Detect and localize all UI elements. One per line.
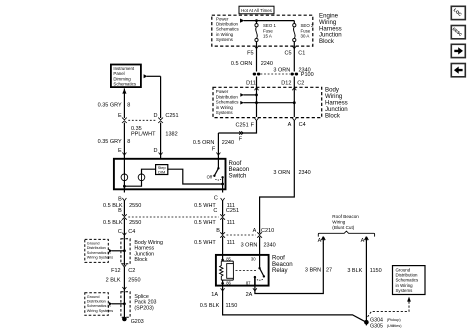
svg-text:DIM: DIM xyxy=(158,169,165,174)
svg-text:F5: F5 xyxy=(247,51,253,57)
svg-text:30: 30 xyxy=(251,257,256,262)
svg-text:3 BRN: 3 BRN xyxy=(305,268,321,274)
relay pin 30 xyxy=(259,255,261,268)
relay contact 87 xyxy=(254,276,256,278)
svg-text:2550: 2550 xyxy=(128,278,140,284)
svg-text:(SP203): (SP203) xyxy=(134,305,154,311)
svg-text:Relay: Relay xyxy=(272,267,289,274)
svg-text:Distribution: Distribution xyxy=(87,246,106,250)
svg-text:C: C xyxy=(214,196,218,202)
svg-text:30 A: 30 A xyxy=(301,34,310,39)
svg-text:E: E xyxy=(118,113,122,119)
svg-text:3 ORN: 3 ORN xyxy=(241,243,258,249)
relay switch arm xyxy=(260,268,264,276)
svg-text:(Pickup): (Pickup) xyxy=(387,318,402,322)
wire hot feed bus with arrow to power distribution xyxy=(244,20,294,22)
terminal A / C4 exit chevron xyxy=(292,118,296,121)
svg-text:2240: 2240 xyxy=(261,61,273,67)
svg-text:C251: C251 xyxy=(226,208,239,214)
svg-text:8: 8 xyxy=(127,103,130,109)
blunt cut brace xyxy=(318,231,374,237)
wire 0.35 GRY 8 (upper segment, node E) xyxy=(123,88,125,118)
wire D to switch xyxy=(160,123,162,159)
svg-text:A: A xyxy=(253,228,257,234)
svg-text:3 BLK: 3 BLK xyxy=(347,268,362,274)
terminal C5 / connector C1 xyxy=(292,46,296,49)
terminal 2A (relay 87) xyxy=(254,286,256,292)
svg-text:Ground: Ground xyxy=(87,295,100,299)
svg-text:8: 8 xyxy=(127,139,130,145)
svg-text:0.5 BLK: 0.5 BLK xyxy=(103,220,123,226)
engine wiring harness junction block (dashed box) xyxy=(212,15,313,46)
svg-text:2240: 2240 xyxy=(222,140,234,146)
svg-text:Schematics: Schematics xyxy=(113,82,136,87)
wire arrow to ground distribution (upper) xyxy=(112,250,124,252)
terminal splice pack entry xyxy=(122,287,126,290)
wire lamp2 top to step/dim module xyxy=(142,169,156,174)
svg-text:Systems: Systems xyxy=(396,288,414,293)
svg-text:Systems: Systems xyxy=(216,110,234,115)
terminal D11 entry chevron xyxy=(255,88,259,91)
svg-text:D12: D12 xyxy=(281,80,291,86)
svg-text:Wiring: Wiring xyxy=(332,220,345,225)
svg-text:C5: C5 xyxy=(284,51,291,57)
relay pin 85 xyxy=(222,255,224,261)
wire arrow into instrument panel box from node D xyxy=(147,75,161,77)
wire fuse SEO2 to C5/C1 exit xyxy=(293,42,295,49)
svg-text:Systems: Systems xyxy=(216,37,234,42)
svg-text:0.35 GRY: 0.35 GRY xyxy=(98,139,122,145)
svg-text:Schematics in: Schematics in xyxy=(87,304,111,308)
junction dot switch common xyxy=(221,183,224,186)
svg-text:1150: 1150 xyxy=(226,303,238,309)
svg-text:Switch: Switch xyxy=(229,173,247,180)
wire through lower body block xyxy=(123,239,125,266)
wire arrow to power distribution (lower) xyxy=(244,102,295,104)
wire 2A to beacon feed run xyxy=(255,243,323,293)
relay coil top bus xyxy=(221,260,233,262)
svg-text:1150: 1150 xyxy=(370,268,382,274)
svg-text:A: A xyxy=(318,238,322,244)
svg-text:87: 87 xyxy=(246,281,251,286)
svg-text:B: B xyxy=(118,196,122,202)
toolbar button back (left arrow) xyxy=(451,64,465,77)
wire 0.5 ORN 2240 (F5 to P100) xyxy=(256,49,258,72)
wire arrow to power distribution (upper) xyxy=(244,94,257,96)
svg-text:2550: 2550 xyxy=(129,220,141,226)
relay actuation dashed link xyxy=(236,270,258,272)
svg-text:B: B xyxy=(118,208,122,214)
wire 3 ORN 2340 (C1 to P100) xyxy=(293,49,295,72)
relay coil bottom bus xyxy=(221,279,233,281)
roof beacon relay box xyxy=(216,255,269,286)
wire through splice pack to G203 xyxy=(123,292,125,319)
body wiring harness junction block upper (dashed box) xyxy=(213,87,322,117)
wire 0.35 GRY 8 (lower segment) xyxy=(123,123,125,156)
wire P100 to body block D11 xyxy=(256,77,258,89)
wire internal bus right (2340 through block) xyxy=(293,88,295,117)
connector C251 chevron on horizontal segment xyxy=(239,131,243,134)
terminal F exit chevron xyxy=(255,118,259,121)
roof beacon switch box xyxy=(114,159,226,190)
svg-text:2340: 2340 xyxy=(264,243,276,249)
relay pin 86 xyxy=(221,282,224,285)
wire 3 BLK 1150 (blunt cut to ground) xyxy=(365,244,367,323)
svg-text:(Utilities): (Utilities) xyxy=(387,324,403,328)
svg-text:2 BLK: 2 BLK xyxy=(106,278,121,284)
svg-text:E: E xyxy=(118,148,122,154)
junction dot xyxy=(123,302,126,305)
instrument panel dimming schematics box xyxy=(111,65,141,88)
svg-text:D11: D11 xyxy=(246,80,256,86)
label Hot At All Times xyxy=(239,6,274,14)
svg-text:1382: 1382 xyxy=(165,132,177,138)
svg-text:Hot At All Times: Hot At All Times xyxy=(241,8,273,13)
relay resistor (parallel with coil) xyxy=(220,261,223,280)
svg-text:Wiring Systems: Wiring Systems xyxy=(87,309,113,313)
svg-text:15 A: 15 A xyxy=(263,34,272,39)
wire 0.5 BLK 2550 (C251 to C4) xyxy=(123,219,125,235)
wire internal bus left (2240 through block) xyxy=(256,88,258,117)
svg-text:2A: 2A xyxy=(246,292,253,298)
svg-text:C251: C251 xyxy=(236,122,249,128)
svg-text:C251: C251 xyxy=(165,113,178,119)
svg-text:Block: Block xyxy=(134,257,147,263)
svg-text:Roof Beacon: Roof Beacon xyxy=(332,214,359,219)
body wiring harness junction block lower (narrow dashed box) xyxy=(121,239,130,264)
lamp 2 (indicator) xyxy=(138,174,145,181)
wire 0.5 BLK 2550 (B to C251) xyxy=(123,201,125,216)
arrowhead up into instrument panel xyxy=(122,89,126,94)
svg-text:D: D xyxy=(154,113,158,119)
svg-text:Block: Block xyxy=(319,38,335,45)
svg-text:Block: Block xyxy=(325,112,341,119)
terminal F12 / C2 xyxy=(122,265,126,268)
ground distribution schematics box (right, solid) xyxy=(393,266,426,295)
wire 2 BLK 2550 (to splice pack) xyxy=(123,267,125,292)
svg-text:C4: C4 xyxy=(299,122,306,128)
wire dashed reference arrow to ground box xyxy=(368,302,409,317)
svg-text:C: C xyxy=(118,229,122,235)
svg-text:PPL/WHT: PPL/WHT xyxy=(131,132,156,138)
wire stub bus to fuse SEO2 xyxy=(293,21,295,24)
svg-text:3 ORN: 3 ORN xyxy=(273,170,290,176)
svg-text:111: 111 xyxy=(227,240,235,246)
wire 0.5 WHT 111 (C251 to C210) xyxy=(222,219,224,234)
svg-text:111: 111 xyxy=(227,220,235,226)
ground G304/G305 xyxy=(364,320,369,325)
wire 0.5 BLK 1150 (1A to ground run) xyxy=(223,292,367,322)
ground distribution reference box (left upper, dashed) xyxy=(85,239,109,262)
svg-text:C210: C210 xyxy=(261,228,274,234)
svg-text:Schematics in: Schematics in xyxy=(87,251,111,255)
junction dot xyxy=(123,249,126,252)
svg-text:0.5 WHT: 0.5 WHT xyxy=(194,240,216,246)
wire dashed C251 link xyxy=(128,216,219,218)
svg-text:C: C xyxy=(213,208,217,214)
svg-text:Ground: Ground xyxy=(87,241,100,245)
svg-text:Off: Off xyxy=(207,174,213,179)
wire 0.5 WHT 111 (C to C251) xyxy=(222,201,224,216)
svg-text:0.5 WHT: 0.5 WHT xyxy=(194,220,216,226)
svg-text:27: 27 xyxy=(326,268,332,274)
svg-text:(Blunt Cut): (Blunt Cut) xyxy=(332,225,354,230)
terminal 1A (relay 86) xyxy=(222,286,224,292)
svg-text:Distribution: Distribution xyxy=(87,300,106,304)
svg-text:3 ORN: 3 ORN xyxy=(273,67,290,73)
svg-text:D: D xyxy=(154,148,158,154)
svg-text:2550: 2550 xyxy=(129,203,141,209)
svg-text:2340: 2340 xyxy=(299,170,311,176)
wire C251 F to switch: vertical from body block xyxy=(218,121,256,133)
toolbar button DESC xyxy=(451,26,465,39)
wire fuse SEO1 to F5 exit xyxy=(256,42,258,49)
toolbar button next (right arrow) xyxy=(451,44,465,57)
wire lamp bottoms junction to B xyxy=(124,181,141,187)
splice pack 203 (narrow dashed box) xyxy=(121,292,130,318)
switch SW1 (roof beacon on/off) xyxy=(217,159,219,169)
ground distribution reference box (left lower, dashed) xyxy=(85,293,109,316)
wire 3 ORN 2340 (body block A/C4 down to C210) xyxy=(260,121,295,234)
svg-text:G305: G305 xyxy=(370,323,383,329)
svg-text:A: A xyxy=(288,122,292,128)
svg-text:1A: 1A xyxy=(211,292,218,298)
svg-text:B: B xyxy=(216,228,220,234)
junction dot xyxy=(293,101,296,104)
connector P100 xyxy=(253,73,298,76)
wire step/dim to switch common xyxy=(168,169,223,184)
wire 0.35 PPL/WHT 1382 (upper segment, node D) xyxy=(160,76,162,118)
svg-text:0.5 BLK: 0.5 BLK xyxy=(200,303,220,309)
toolbar button LOC xyxy=(451,6,465,19)
svg-text:0.5 ORN: 0.5 ORN xyxy=(193,140,214,146)
wire 0.5 ORN 2240 (to switch F) xyxy=(217,133,219,156)
fuse SEO 2 30 A xyxy=(293,24,296,42)
junction dot fuse SEO1 feed xyxy=(255,19,258,22)
relay coil xyxy=(227,264,234,279)
junction dot xyxy=(255,94,258,97)
terminal F5 xyxy=(255,46,259,49)
wire arrow to ground distribution (lower) xyxy=(112,303,124,305)
junction dot xyxy=(255,101,258,104)
svg-text:C4: C4 xyxy=(128,229,135,235)
fuse SEO 1 15 A xyxy=(255,24,258,42)
lamp 1 (switch illumination) xyxy=(123,159,125,174)
relay throw dashed arc xyxy=(257,278,263,281)
wire dashed C210 link xyxy=(227,234,256,236)
svg-text:G203: G203 xyxy=(131,319,144,325)
svg-text:0.35 GRY: 0.35 GRY xyxy=(98,103,122,109)
svg-text:C2: C2 xyxy=(297,80,304,86)
svg-text:A: A xyxy=(361,238,365,244)
terminal D12 entry chevron xyxy=(292,88,296,91)
svg-text:P100: P100 xyxy=(301,72,314,78)
svg-text:86: 86 xyxy=(226,281,231,286)
wire 0.5 WHT 111 (C210 to relay 85) xyxy=(222,237,224,255)
svg-text:0.5 ORN: 0.5 ORN xyxy=(231,61,252,67)
svg-text:Wiring Systems: Wiring Systems xyxy=(87,256,113,260)
wire 3 ORN 2340 (C210 to relay 30) xyxy=(259,237,261,255)
wire P100 to body block D12/C2 xyxy=(293,77,295,89)
ground G203 xyxy=(122,317,127,322)
svg-text:C1: C1 xyxy=(298,51,305,57)
svg-text:C2: C2 xyxy=(128,268,135,274)
junction dot xyxy=(123,185,126,188)
step/dim module xyxy=(156,165,168,175)
wire stub bus to fuse SEO1 xyxy=(256,21,258,24)
svg-text:F12: F12 xyxy=(111,268,120,274)
